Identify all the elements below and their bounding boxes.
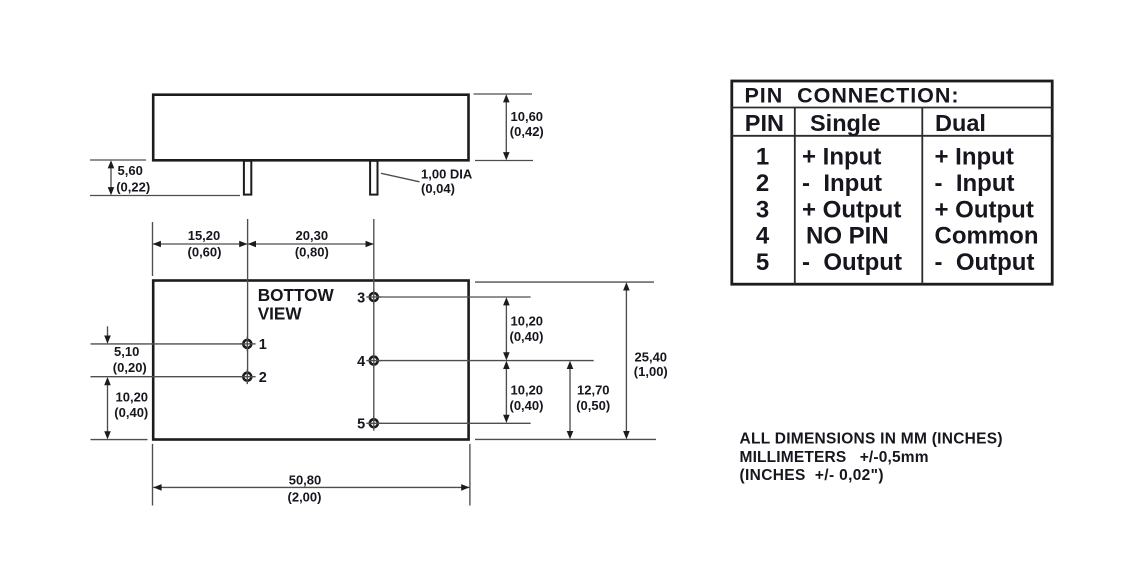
svg-text:+ Input: + Input: [935, 144, 1014, 171]
svg-text:4: 4: [357, 354, 365, 370]
pin 2 number label: [259, 370, 267, 386]
svg-text:NO PIN: NO PIN: [806, 223, 889, 250]
svg-text:MILLIMETERS +/-0,5mm: MILLIMETERS +/-0,5mm: [740, 449, 929, 466]
svg-text:15,20: 15,20: [188, 228, 221, 243]
svg-text:PIN: PIN: [745, 110, 784, 136]
svg-text:3: 3: [756, 196, 769, 223]
svg-text:1: 1: [756, 144, 769, 171]
svg-text:1,00 DIA: 1,00 DIA: [421, 166, 473, 181]
pin 5 (bottom view): [366, 416, 381, 431]
table row pin 2: [756, 170, 1015, 197]
svg-text:2: 2: [756, 170, 769, 197]
extension line bottom width left: [152, 444, 154, 506]
leader and label 1,00 DIA (0,04) pin diameter: [381, 166, 473, 196]
dimension 50,80 (2,00) body width: [153, 473, 469, 505]
extension line bottom width right: [469, 444, 471, 506]
dimension 10,20 (0,40) right lower: [503, 361, 543, 423]
svg-text:3: 3: [357, 290, 365, 306]
svg-text:(0,50): (0,50): [576, 398, 610, 413]
table header separator line 1: [730, 107, 1053, 109]
svg-text:(0,40): (0,40): [510, 329, 544, 344]
svg-text:- Output: - Output: [802, 249, 902, 276]
pin 1 extension line: [91, 343, 248, 345]
svg-text:(0,60): (0,60): [188, 244, 222, 259]
svg-text:(0,22): (0,22): [116, 179, 150, 194]
table header separator line 2: [730, 135, 1053, 137]
svg-text:10,20: 10,20: [511, 383, 544, 398]
construction line pins 1-2 column: [247, 219, 249, 377]
pin 2 (bottom view): [240, 369, 256, 384]
svg-text:- Output: - Output: [935, 249, 1035, 276]
svg-text:VIEW: VIEW: [258, 304, 303, 324]
svg-text:+ Output: + Output: [935, 196, 1034, 223]
svg-text:10,60: 10,60: [511, 109, 544, 124]
pin 3 number label: [357, 290, 365, 306]
construction line pins 3-4-5 column: [373, 219, 375, 423]
side view body: [153, 95, 468, 161]
svg-text:(2,00): (2,00): [288, 489, 322, 504]
svg-text:- Input: - Input: [802, 170, 882, 197]
bottom view body: [153, 281, 468, 440]
svg-text:4: 4: [756, 223, 770, 250]
pin lead A (side view, pins 1/2 column): [244, 161, 251, 195]
dimension 15,20 (0,60): [153, 228, 248, 259]
dimension 5,60 (0,22) pin length: [90, 160, 240, 196]
pin 3 extension line: [374, 296, 531, 298]
svg-text:PIN CONNECTION:: PIN CONNECTION:: [745, 83, 959, 107]
pin 5 number label: [357, 417, 365, 433]
table column line 1: [794, 108, 796, 285]
pin 5 extension line: [374, 422, 531, 424]
dimension 5,10 (0,20): [104, 326, 147, 375]
svg-text:Single: Single: [810, 110, 881, 136]
svg-text:(0,04): (0,04): [421, 181, 455, 196]
svg-text:(0,80): (0,80): [295, 244, 329, 259]
table row pin 4: [756, 223, 1039, 250]
pin lead B (side view, pins 3/4/5 column): [370, 161, 377, 195]
svg-text:(0,40): (0,40): [510, 398, 544, 413]
svg-text:(0,42): (0,42): [510, 124, 544, 139]
svg-text:1: 1: [259, 337, 267, 353]
pin 1 (bottom view): [240, 337, 256, 352]
pin 2 extension line: [91, 376, 248, 378]
svg-text:20,30: 20,30: [296, 228, 329, 243]
svg-text:2: 2: [259, 370, 267, 386]
pin 1 number label: [259, 337, 267, 353]
pin 4 number label: [357, 354, 365, 370]
svg-text:5,10: 5,10: [114, 344, 139, 359]
pin 4 extension line: [374, 360, 594, 362]
svg-text:5: 5: [756, 249, 769, 276]
svg-text:+ Output: + Output: [802, 196, 901, 223]
table row pin 3: [756, 196, 1034, 223]
svg-text:Dual: Dual: [935, 110, 986, 136]
pin 3 (bottom view): [366, 290, 381, 305]
dimension 25,40 (1,00): [623, 282, 668, 439]
table row pin 1: [756, 144, 1014, 171]
svg-text:12,70: 12,70: [577, 383, 610, 398]
svg-text:- Input: - Input: [935, 170, 1015, 197]
svg-text:(0,20): (0,20): [113, 360, 147, 375]
dimension 10,20 (0,40) left: [104, 377, 148, 439]
svg-text:(INCHES +/- 0,02"): (INCHES +/- 0,02"): [740, 467, 884, 484]
label BOTTOW VIEW: [258, 285, 335, 323]
svg-text:BOTTOW: BOTTOW: [258, 285, 335, 305]
table column line 2: [921, 108, 923, 285]
extension line bottom right: [475, 438, 656, 440]
svg-text:+ Input: + Input: [802, 144, 881, 171]
svg-text:(1,00): (1,00): [634, 364, 668, 379]
svg-text:Common: Common: [935, 223, 1039, 250]
svg-text:10,20: 10,20: [116, 390, 149, 405]
svg-text:10,20: 10,20: [511, 314, 544, 329]
pin connection table frame: [732, 81, 1052, 284]
svg-text:5,60: 5,60: [118, 163, 143, 178]
tolerance notes: [740, 431, 1003, 484]
svg-text:(0,40): (0,40): [114, 405, 148, 420]
dimension 10,20 (0,40) right upper: [503, 297, 543, 360]
table title PIN CONNECTION:: [745, 83, 959, 107]
svg-text:ALL DIMENSIONS IN MM (INCHES): ALL DIMENSIONS IN MM (INCHES): [740, 431, 1003, 448]
extension line top right: [475, 281, 654, 283]
svg-text:5: 5: [357, 417, 365, 433]
table row pin 5: [756, 249, 1035, 276]
dimension 20,30 (0,80): [248, 228, 374, 259]
svg-text:25,40: 25,40: [635, 349, 668, 364]
dimension 12,70 (0,50): [567, 361, 610, 439]
extension line left edge top: [152, 222, 154, 276]
table column headers: [745, 110, 986, 136]
pin 4 (bottom view): [366, 353, 381, 368]
dimension 10,60 (0,42) body height: [474, 94, 544, 161]
extension line bottom left: [91, 439, 148, 441]
svg-text:50,80: 50,80: [289, 473, 322, 488]
